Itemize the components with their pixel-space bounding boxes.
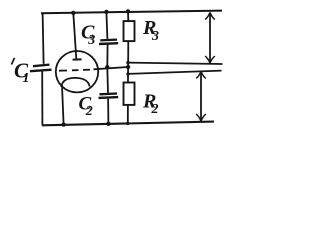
svg-text:1: 1 (23, 71, 30, 86)
svg-text:3: 3 (87, 33, 95, 48)
svg-text:3: 3 (151, 29, 159, 44)
svg-text:2: 2 (151, 102, 159, 117)
svg-text:2: 2 (85, 104, 93, 119)
